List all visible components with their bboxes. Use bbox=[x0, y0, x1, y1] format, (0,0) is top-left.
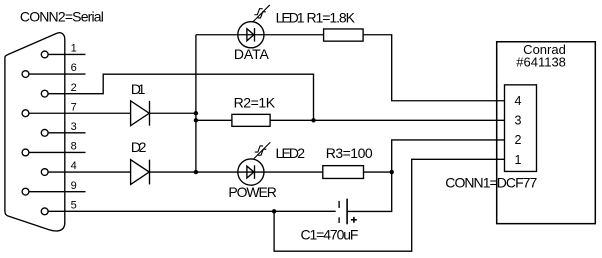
svg-text:1: 1 bbox=[515, 153, 522, 167]
connector CONN2 DB9 shell bbox=[5, 33, 65, 231]
svg-text:D1: D1 bbox=[131, 81, 146, 97]
wire R2 row: riser node to R2 bbox=[196, 119, 232, 121]
wire LED1 row: riser to R1 bbox=[196, 34, 324, 36]
wire riser joining LED1 row, D1 node, R2 node and D2 row bbox=[195, 35, 197, 172]
svg-text:C1=470uF: C1=470uF bbox=[301, 226, 359, 242]
svg-text:6: 6 bbox=[71, 62, 77, 74]
CONN2 pin 9 circle bbox=[22, 188, 29, 195]
CONN2 pin 6 stub wire bbox=[29, 73, 86, 75]
wire CONN2 pin 5 to C1 left plate bbox=[48, 210, 336, 212]
CONN1 pin header box bbox=[505, 85, 537, 172]
capacitor C1 bbox=[339, 199, 347, 225]
diode D1 bbox=[131, 101, 150, 126]
LED1 emission arrows bbox=[253, 5, 269, 22]
svg-text:9: 9 bbox=[71, 180, 77, 192]
junction dot riser to D2 row bbox=[194, 170, 198, 174]
CONN2 pin 1 stub wire bbox=[48, 53, 85, 55]
CONN2 pin 1 circle bbox=[41, 51, 48, 58]
CONN2 pin 4 circle bbox=[41, 169, 48, 176]
wire D1 cathode to riser node bbox=[150, 112, 196, 114]
wire CONN2 pin 7 to D1 anode bbox=[29, 112, 131, 114]
diode D2 bbox=[131, 160, 150, 185]
svg-text:R3=100: R3=100 bbox=[326, 145, 373, 161]
resistor R1 bbox=[324, 29, 364, 41]
svg-text:4: 4 bbox=[515, 94, 522, 108]
CONN2 pin 3 circle bbox=[41, 129, 48, 136]
resistor R2 bbox=[232, 114, 270, 126]
junction dot R3 output node bbox=[389, 170, 393, 174]
svg-text:CONN2=Serial: CONN2=Serial bbox=[20, 8, 104, 24]
LED LED2 bbox=[238, 159, 264, 185]
svg-text:D2: D2 bbox=[131, 139, 147, 155]
wire CONN2 pin 4 to D2 anode bbox=[48, 171, 131, 173]
C1 plus sign bbox=[351, 217, 357, 223]
CONN2 pin 8 stub wire bbox=[29, 151, 86, 153]
svg-text:R1=1.8K: R1=1.8K bbox=[307, 9, 356, 25]
CONN2 pin 8 circle bbox=[22, 149, 29, 156]
svg-text:7: 7 bbox=[71, 101, 77, 113]
svg-text:5: 5 bbox=[71, 200, 77, 212]
svg-text:2: 2 bbox=[515, 133, 522, 147]
resistor R3 bbox=[323, 166, 364, 179]
junction dot ground node on pin 5 wire bbox=[272, 209, 276, 213]
junction dot D1 cathode node bbox=[194, 111, 198, 115]
wire D2 cathode through LED2 to R3 bbox=[150, 171, 323, 173]
wire CONN2 pin 2 to R2 output node (up and over) bbox=[48, 74, 313, 120]
LED LED1 bbox=[238, 22, 264, 48]
module CONN1 DCF77 receiver outline bbox=[497, 42, 596, 224]
svg-text:3: 3 bbox=[71, 121, 77, 133]
svg-text:3: 3 bbox=[515, 114, 522, 128]
svg-text:8: 8 bbox=[71, 141, 77, 153]
CONN2 pin 9 stub wire bbox=[29, 191, 86, 193]
CONN2 pin 5 circle bbox=[41, 208, 48, 215]
svg-text:4: 4 bbox=[71, 160, 77, 172]
LED2 emission arrows bbox=[254, 142, 270, 159]
CONN2 pin 2 circle bbox=[41, 90, 48, 97]
wire R1 to CONN1 pin 4 bbox=[363, 35, 504, 101]
CONN2 pin 6 circle bbox=[22, 71, 29, 78]
wire R3 to pin2-branch riser bbox=[364, 171, 392, 173]
wire ground loop to CONN1 pin 1 bbox=[274, 159, 504, 251]
wire R2 to CONN1 pin 3 bbox=[270, 119, 504, 121]
svg-text:CONN1=DCF77: CONN1=DCF77 bbox=[445, 175, 537, 191]
wire CONN1 pin 2 branch down to C1 plus bbox=[347, 140, 504, 212]
svg-text:DATA: DATA bbox=[234, 46, 270, 62]
svg-text:LED2: LED2 bbox=[276, 145, 306, 161]
CONN2 pin 3 stub wire bbox=[48, 132, 85, 134]
svg-text:1: 1 bbox=[71, 43, 77, 55]
junction dot R2 input node bbox=[194, 118, 198, 122]
svg-text:2: 2 bbox=[71, 82, 77, 94]
svg-text:LED1: LED1 bbox=[276, 9, 305, 25]
svg-text:POWER: POWER bbox=[228, 184, 276, 200]
svg-text:R2=1K: R2=1K bbox=[234, 95, 276, 111]
junction dot pin2-branch on R2 wire bbox=[311, 118, 315, 122]
CONN2 pin 7 circle bbox=[22, 110, 29, 117]
svg-text:#641138: #641138 bbox=[516, 54, 566, 69]
